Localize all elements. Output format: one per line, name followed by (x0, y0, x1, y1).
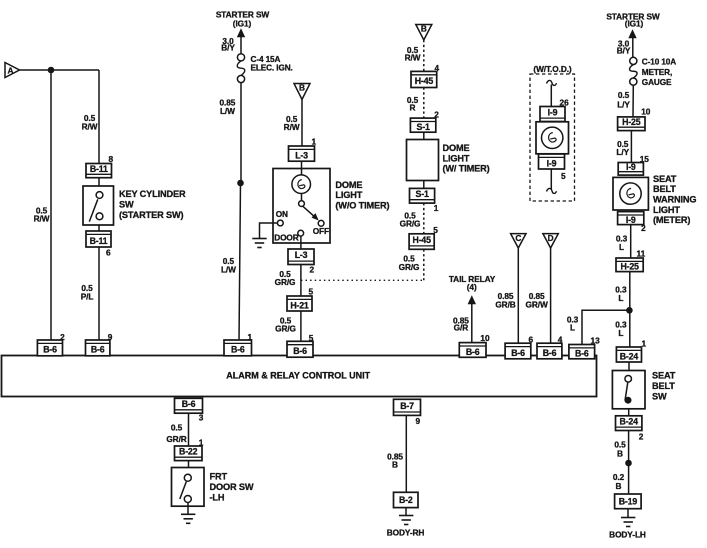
label DOME LIGHT (W/ TIMER) (443, 143, 490, 174)
lamp DOME LIGHT (W/O TIMER) (273, 169, 330, 244)
svg-text:1: 1 (199, 438, 204, 448)
svg-text:L: L (618, 328, 623, 338)
label 0.5 R (407, 95, 419, 112)
svg-text:R: R (410, 102, 416, 112)
svg-text:5: 5 (309, 287, 314, 297)
connector S-1 pin 1 (410, 188, 435, 203)
connector I-9 pin 5 (539, 154, 565, 169)
svg-text:OFF: OFF (313, 226, 329, 236)
ground (dome light) (252, 239, 266, 248)
svg-text:DOOR: DOOR (274, 232, 299, 242)
connector B-11 pin 8 (86, 164, 112, 178)
svg-text:S-1: S-1 (417, 122, 430, 132)
svg-text:B-6: B-6 (543, 348, 557, 358)
svg-text:DOME: DOME (443, 143, 470, 153)
connector B-6 pin 5 (287, 341, 313, 357)
connector B-24 pin 1 (616, 347, 641, 362)
wire stub (wavy) bottom (547, 188, 557, 193)
svg-text:1: 1 (642, 339, 647, 349)
svg-text:P/L: P/L (81, 291, 94, 301)
svg-text:L: L (619, 242, 624, 252)
lamp T.O.D. interior light (536, 122, 569, 154)
label DOME LIGHT (W/O TIMER) (335, 180, 389, 211)
svg-text:10: 10 (641, 106, 651, 116)
svg-text:26: 26 (560, 98, 570, 108)
svg-text:3: 3 (199, 413, 204, 423)
wire tail relay to B-6 pin 10 (471, 304, 473, 343)
wire B-19 to ground (627, 509, 629, 518)
label 0.5 R/W (34, 205, 50, 223)
svg-text:2: 2 (60, 332, 65, 342)
unit DOME LIGHT (W/ TIMER) (407, 140, 439, 181)
wire A to key cylinder branch (20, 69, 100, 71)
switch FRT DOOR SW -LH (172, 468, 205, 507)
svg-text:GR/B: GR/B (495, 300, 515, 310)
svg-text:A: A (8, 66, 14, 76)
junction on wire A (48, 67, 55, 74)
label 0.2 B (613, 472, 625, 491)
connector B-22 pin 1 (175, 446, 203, 461)
svg-text:G/R: G/R (454, 323, 469, 333)
svg-text:B-7: B-7 (400, 401, 414, 411)
svg-text:L-3: L-3 (295, 150, 308, 160)
svg-text:1: 1 (248, 332, 253, 342)
svg-text:SEAT: SEAT (653, 174, 677, 184)
svg-text:S-1: S-1 (416, 189, 429, 199)
svg-text:FRT: FRT (210, 472, 228, 482)
connector B-7 pin 9 (394, 399, 421, 415)
svg-text:11: 11 (637, 248, 646, 258)
svg-text:B/Y: B/Y (221, 43, 235, 53)
svg-text:DOME: DOME (335, 180, 362, 190)
connector B-6 pin 9 (86, 340, 110, 356)
label 0.85 G/R (453, 315, 469, 332)
svg-text:L: L (570, 322, 575, 332)
svg-text:6: 6 (529, 334, 534, 344)
svg-text:I-9: I-9 (626, 162, 636, 172)
svg-text:L/W: L/W (221, 265, 236, 275)
svg-text:C-10 10A: C-10 10A (642, 57, 676, 66)
wire B-11 pin 6 to B-6 pin 9 (98, 247, 100, 341)
svg-text:H-25: H-25 (620, 262, 639, 272)
svg-text:B-6: B-6 (511, 348, 525, 358)
svg-text:9: 9 (108, 332, 113, 342)
svg-text:B-6: B-6 (182, 399, 196, 409)
connector B-6 pin 1 (224, 340, 252, 356)
wire B-6 pin 13 to seat belt junction (582, 310, 629, 344)
svg-text:B-6: B-6 (575, 349, 589, 359)
svg-text:ALARM & RELAY CONTROL UNIT: ALARM & RELAY CONTROL UNIT (226, 371, 370, 381)
connector I-9 pin 15 (618, 162, 643, 175)
svg-text:5: 5 (309, 333, 314, 343)
svg-text:(IG1): (IG1) (625, 19, 644, 29)
svg-text:(4): (4) (467, 282, 477, 292)
label 3.0 B/Y (617, 38, 631, 55)
svg-text:10: 10 (480, 333, 490, 343)
svg-text:B-24: B-24 (620, 417, 639, 427)
label 0.5 GR/R (166, 423, 186, 445)
svg-text:B-11: B-11 (90, 236, 108, 246)
label 0.3 L (615, 285, 627, 304)
svg-text:B: B (392, 460, 398, 470)
svg-text:B-6: B-6 (91, 345, 105, 355)
wire B-22 to front door sw (188, 461, 190, 468)
wire seat belt sw to B-24 pin 2 (628, 409, 630, 416)
svg-text:L: L (618, 293, 623, 303)
svg-text:15: 15 (640, 154, 650, 164)
svg-text:5: 5 (433, 225, 438, 235)
connector B-6 pin 13 (569, 345, 595, 359)
net STARTER SW (IG1) right (606, 12, 660, 29)
svg-text:H-25: H-25 (622, 117, 641, 127)
label 0.85 GR/B (495, 291, 515, 310)
svg-text:2: 2 (310, 265, 315, 275)
svg-text:DOOR SW: DOOR SW (210, 482, 254, 492)
svg-text:(IG1): (IG1) (233, 19, 252, 29)
connector L-3 pin 1 (289, 146, 315, 161)
label 0.3 L (615, 320, 627, 339)
svg-text:B: B (617, 449, 623, 459)
svg-text:(STARTER SW): (STARTER SW) (119, 210, 183, 220)
svg-text:2: 2 (641, 223, 646, 233)
svg-text:SW: SW (119, 200, 134, 210)
lamp SEAT BELT WARNING LIGHT (613, 177, 648, 210)
wire L-3 pin 1 to dome light (301, 161, 303, 168)
connector B-24 pin 2 (616, 416, 642, 431)
svg-text:BELT: BELT (652, 381, 675, 391)
wire arrow to fuse C-10 (632, 38, 634, 58)
wire junction down to B-6 pin 2 (50, 70, 52, 341)
svg-text:I-9: I-9 (547, 158, 557, 168)
wire ON contact to ground (260, 223, 278, 239)
label FRT DOOR SW -LH (210, 472, 254, 503)
splice 0.5/0.2 B (625, 460, 632, 467)
svg-text:(METER): (METER) (653, 215, 690, 225)
svg-text:B-6: B-6 (43, 345, 57, 355)
connector H-21 pin 5 (287, 296, 312, 311)
svg-text:METER,: METER, (642, 68, 672, 77)
svg-text:LIGHT: LIGHT (335, 190, 362, 200)
wire timer unit to S-1 pin 1 (423, 181, 425, 189)
svg-text:GR/G: GR/G (275, 277, 296, 287)
connector triangle B (dome light w/ timer) (416, 24, 432, 40)
wire H-25 pin 10 to I-9 pin 15 (630, 131, 632, 163)
switch SEAT BELT SW (612, 371, 645, 409)
label 0.5 L/W (221, 256, 236, 275)
wire H-25 pin 11 to B-24 pin 1 (629, 272, 631, 347)
svg-text:2: 2 (434, 110, 439, 120)
wire to I-9 pin 26 (550, 85, 552, 107)
svg-text:8: 8 (109, 154, 114, 164)
label 0.5 R/W (284, 114, 300, 132)
label 0.85 B (387, 452, 403, 470)
svg-text:13: 13 (591, 336, 601, 346)
svg-text:KEY CYLINDER: KEY CYLINDER (119, 189, 186, 199)
svg-text:GR/G: GR/G (399, 262, 420, 272)
connector B-6 pin 10 (459, 343, 486, 358)
svg-text:SEAT: SEAT (652, 371, 676, 381)
svg-text:L/Y: L/Y (617, 99, 630, 109)
label 0.5 GR/G (399, 253, 420, 272)
label 0.5 L/Y (617, 90, 630, 109)
connector B-2 (394, 492, 419, 507)
label SEAT BELT SW (652, 371, 676, 402)
wire B-7 pin 9 to B-2 (405, 415, 407, 492)
arrow to tail relay (468, 295, 476, 304)
wire B-2 to ground (405, 508, 407, 515)
switch KEY CYLINDER SW (83, 186, 114, 225)
wire S-1 pin 2 to timer unit (423, 132, 425, 139)
wire key cylinder sw to B-11 pin 6 (98, 225, 100, 231)
svg-text:BODY-RH: BODY-RH (387, 528, 425, 538)
svg-text:R/W: R/W (405, 52, 421, 62)
connector H-45 pin 5 (409, 234, 434, 250)
svg-text:B-22: B-22 (179, 447, 198, 457)
svg-text:GR/G: GR/G (400, 219, 421, 229)
svg-text:GR/R: GR/R (166, 434, 186, 444)
svg-text:ON: ON (276, 209, 288, 219)
wire B-24 pin 2 to B-19 (628, 431, 630, 495)
dotted net to dome light w/ timer (301, 279, 423, 281)
wire L-3 pin 2 to H-21 pin 5 (300, 265, 302, 297)
ground BODY-LH (621, 518, 635, 527)
svg-text:GR/G: GR/G (275, 324, 296, 334)
label 0.3 L (616, 234, 628, 252)
svg-text:H-45: H-45 (415, 76, 434, 86)
enclosure W/T.O.D. (530, 74, 575, 201)
svg-text:D: D (548, 233, 554, 243)
dashed wire S-1 pin 1 to H-45 pin 5 (423, 203, 425, 234)
label SEAT BELT WARNING LIGHT (METER) (653, 174, 696, 225)
label 0.5 R/W (405, 45, 421, 62)
svg-text:B-6: B-6 (293, 346, 307, 356)
svg-text:1: 1 (434, 203, 439, 213)
label C-4 15A ELEC. IGN. (251, 55, 293, 73)
ground (front door sw) (181, 514, 195, 523)
svg-text:-LH: -LH (210, 493, 225, 503)
svg-text:5: 5 (561, 171, 566, 181)
svg-text:L/W: L/W (220, 106, 235, 116)
connector B-11 pin 6 (86, 231, 111, 247)
connector H-45 pin 4 (411, 71, 437, 87)
svg-text:B: B (299, 83, 305, 93)
wire fuse C-10 to H-25 pin 10 (632, 85, 634, 117)
net TAIL RELAY (4) (449, 274, 496, 292)
connector L-3 pin 2 (288, 249, 314, 265)
label 0.5 GR/G (275, 316, 296, 334)
svg-text:B-2: B-2 (399, 495, 413, 505)
connector B-19 (615, 494, 642, 509)
svg-text:WARNING: WARNING (653, 195, 696, 205)
label 0.3 L (567, 315, 579, 333)
svg-text:2: 2 (639, 431, 644, 441)
svg-text:H-45: H-45 (413, 235, 432, 245)
svg-text:LIGHT: LIGHT (653, 205, 680, 215)
svg-text:B-6: B-6 (466, 347, 480, 357)
wire B-11 to key cylinder sw (98, 178, 100, 186)
wire arrow to fuse C-4 (240, 36, 242, 54)
wire I-9 pin 2 to H-25 pin 11 (630, 225, 632, 258)
svg-text:B: B (421, 24, 427, 34)
dashed wire H-45 pin 4 to S-1 pin 2 (423, 88, 425, 119)
svg-text:R/W: R/W (34, 214, 50, 224)
svg-text:I-9: I-9 (626, 215, 636, 225)
dashed wire B to H-45 pin 4 (423, 40, 425, 71)
svg-text:L/Y: L/Y (616, 147, 629, 157)
svg-text:B-11: B-11 (90, 164, 108, 174)
svg-text:B: B (616, 481, 622, 491)
connector triangle B (dome light w/o timer) (294, 83, 310, 100)
svg-text:(W/O TIMER): (W/O TIMER) (335, 201, 389, 211)
connector B-6 pin 6 (505, 343, 531, 359)
wire splice to B-6 pin 1 (239, 183, 241, 341)
net STARTER SW (IG1) (216, 10, 270, 29)
wire DOOR contact to L-3 pin 2 (300, 236, 302, 249)
connector I-9 pin 2 (618, 212, 644, 225)
connector triangle D (543, 233, 558, 248)
svg-text:GAUGE: GAUGE (642, 78, 672, 87)
junction seat belt / B-6 pin 13 (626, 307, 633, 314)
label C-10 10A METER, GAUGE (642, 57, 676, 87)
label 0.85 L/W (220, 98, 236, 116)
label 0.5 R/W (82, 113, 98, 132)
svg-text:GR/W: GR/W (526, 300, 548, 310)
svg-text:9: 9 (416, 416, 421, 426)
label 0.5 L/Y (616, 139, 629, 157)
wire B to L-3 pin 1 (301, 100, 303, 147)
svg-text:(W/ TIMER): (W/ TIMER) (443, 164, 490, 174)
connector B-6 pin 2 (37, 340, 62, 356)
connector B-6 pin 4 (537, 343, 562, 359)
dashed wire H-45 pin 5 to dotted net (423, 249, 425, 280)
svg-text:SW: SW (652, 392, 667, 402)
connector H-25 pin 11 (616, 258, 643, 272)
connector triangle C (511, 233, 526, 248)
svg-text:(W/T.O.D.): (W/T.O.D.) (533, 64, 572, 74)
label 0.5 GR/G (400, 211, 421, 229)
wire H-21 pin 5 to B-6 pin 5 (300, 311, 302, 342)
unit ALARM & RELAY CONTROL UNIT (2, 356, 597, 397)
svg-text:6: 6 (106, 248, 111, 258)
label 0.5 B (614, 440, 626, 459)
svg-text:C: C (515, 233, 521, 243)
arrow to STARTER SW feed (237, 28, 245, 37)
wire B-24 pin 1 to seat belt sw (628, 362, 630, 371)
svg-text:H-21: H-21 (290, 300, 309, 310)
wire stub (wavy) top (547, 80, 557, 85)
svg-text:1: 1 (312, 137, 317, 147)
svg-text:0.5: 0.5 (171, 423, 183, 433)
label 0.5 GR/G (275, 269, 296, 287)
fuse C-4 15A (237, 54, 245, 83)
svg-text:B-6: B-6 (231, 345, 245, 355)
wire fuse C-4 to splice (240, 83, 242, 183)
svg-text:R/W: R/W (82, 122, 98, 132)
fuse C-10 10A (630, 57, 638, 85)
connector B-6 pin 3 (175, 398, 203, 413)
label 0.5 P/L (81, 283, 94, 301)
label 3.0 B/Y (221, 36, 235, 53)
connector I-9 pin 26 (540, 107, 565, 122)
svg-text:B-24: B-24 (620, 351, 639, 361)
wire I-9 pin 5 down (550, 169, 552, 190)
connector H-25 pin 10 (618, 117, 645, 131)
svg-text:B-19: B-19 (619, 497, 638, 507)
wire D to B-6 pin 4 (550, 248, 552, 344)
wire branch down to B-11 pin 8 (98, 70, 100, 164)
svg-text:R/W: R/W (284, 122, 300, 132)
splice 0.85/0.5 L/W (237, 180, 244, 187)
label KEY CYLINDER SW (STARTER SW) (119, 189, 186, 220)
svg-text:I-9: I-9 (548, 107, 558, 117)
svg-text:B/Y: B/Y (617, 46, 631, 56)
arrow to STARTER SW feed (right) (628, 29, 636, 38)
svg-text:4: 4 (435, 63, 440, 73)
connector triangle A (5, 63, 20, 78)
ground BODY-RH (399, 516, 413, 525)
svg-text:LIGHT: LIGHT (443, 153, 470, 163)
svg-text:4: 4 (558, 334, 563, 344)
wire front door sw to ground (187, 503, 189, 515)
svg-text:ELEC. IGN.: ELEC. IGN. (251, 64, 293, 73)
wire B-6 pin 3 to B-22 pin 1 (188, 413, 190, 446)
svg-text:L-3: L-3 (295, 250, 308, 260)
connector S-1 pin 2 (410, 118, 435, 132)
svg-text:BELT: BELT (653, 184, 676, 194)
wire C to B-6 pin 6 (517, 248, 519, 344)
svg-text:BODY-LH: BODY-LH (609, 530, 646, 540)
label 0.85 GR/W (526, 291, 548, 310)
